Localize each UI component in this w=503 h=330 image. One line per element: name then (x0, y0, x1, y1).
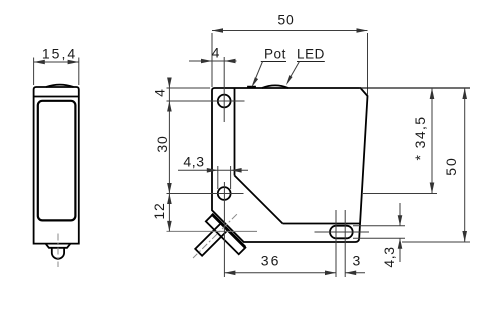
LED leader line (288, 62, 300, 83)
LED dome on top edge (262, 85, 288, 88)
dim 4 top arrow left (outside) (201, 59, 212, 64)
dim 34,5 dimension line (431, 88, 433, 194)
ext bottom edge to 50 right (402, 241, 470, 243)
sensor body outline (front view) (34, 87, 79, 244)
ext slot line 2 (344, 210, 346, 277)
dim 50 top arrow right (357, 28, 368, 33)
dim 15,4 arrow right (68, 60, 79, 65)
connector barrel (195, 224, 227, 256)
dim 36 dimension line (224, 272, 336, 274)
centerline of connector (front view) (57, 234, 59, 268)
dim 50 top: extension right (367, 33, 369, 95)
dim 4,3 arrow right (231, 168, 242, 173)
dim 36 arrow right (325, 271, 336, 276)
dim 3 arrow (outside right) (345, 271, 356, 276)
dim 4,3 arrow left (207, 168, 218, 173)
mounting strip inner vertical line (234, 88, 236, 176)
ext upper hole axis (167, 100, 245, 102)
connector face line (212, 214, 245, 247)
ext top edge (167, 87, 211, 89)
dim 34,5 arrow top (430, 88, 435, 99)
ext connector axis (167, 230, 258, 232)
bottom slot (330, 226, 353, 239)
svg-text:4: 4 (212, 45, 220, 61)
Pot leader underline (261, 61, 286, 63)
connector assembly rotated 45deg (180, 202, 257, 279)
svg-text:30: 30 (154, 135, 170, 152)
arrow at lower hole (up) (167, 194, 172, 205)
svg-text:12: 12 (151, 202, 167, 219)
dim 4,3 right lower tail (399, 238, 401, 262)
slot crosshair horizontal (315, 231, 370, 233)
svg-text:4: 4 (152, 89, 168, 97)
svg-text:3: 3 (353, 253, 361, 269)
connector centerline (193, 214, 237, 258)
Pot leader line (253, 62, 263, 85)
top dome (front view) (46, 85, 74, 87)
hole edge extension right (230, 166, 232, 189)
dim 4,3 right arrow down (398, 215, 403, 226)
connector barrel (front view) (52, 248, 64, 259)
svg-text:50: 50 (277, 12, 294, 28)
pot adjuster bump on top edge (248, 87, 255, 88)
svg-text:Pot: Pot (264, 47, 286, 62)
dim 36 arrow left (224, 271, 235, 276)
dim 4,3 dimension line (178, 169, 248, 171)
lower hole crosshair vertical / 36 extension (223, 182, 225, 277)
dim 4 top arrow right (outside) (225, 59, 236, 64)
dim 50 right dimension line (464, 88, 466, 242)
LED leader underline (297, 61, 325, 63)
svg-text:50: 50 (443, 156, 459, 176)
lens window panel (38, 101, 76, 221)
dim 15,4 extension line left (33, 58, 35, 86)
sensor body outline (side view) (212, 88, 368, 242)
arrow at upper hole (up) (167, 101, 172, 112)
svg-text:15,4: 15,4 (42, 46, 77, 62)
dim 50 right arrow top (462, 88, 467, 99)
dim 34,5 arrow bottom (430, 183, 435, 194)
arrow at connector axis (down) (167, 221, 172, 232)
dim 3 tail line (345, 272, 365, 274)
dim 50 top arrow left (212, 28, 223, 33)
svg-text:4,3: 4,3 (183, 154, 204, 170)
dim 50 top dimension line (212, 30, 368, 32)
dim 50 top: extension left (211, 33, 213, 87)
dim 15,4 arrow left (34, 60, 45, 65)
ext slot line 1 (335, 210, 337, 277)
left dimension line (168, 78, 170, 231)
ext lower hole axis to 34,5 (363, 193, 437, 195)
upper mounting hole (218, 95, 231, 108)
dim 4,3 right upper tail (399, 203, 401, 226)
cap separation line (34, 96, 79, 98)
dim 4,3 right arrow up (398, 238, 403, 249)
dim 15,4 dimension line (34, 61, 79, 63)
svg-text:* 34,5: * 34,5 (412, 116, 428, 161)
Pot leader arrow (251, 77, 258, 87)
LED leader arrow (286, 75, 293, 85)
svg-text:4,3: 4,3 (381, 246, 397, 267)
top edge extension to the right (359, 87, 470, 89)
lower mounting hole (218, 187, 231, 200)
svg-text:36: 36 (261, 253, 281, 269)
arrow at lower hole (down) (167, 183, 172, 194)
ext lower hole axis (167, 193, 244, 195)
slot bottom extension (353, 237, 405, 239)
dim 50 right arrow bottom (462, 231, 467, 242)
hole edge extension left (217, 166, 219, 189)
mounting strip inner diagonal (235, 176, 283, 224)
svg-text:LED: LED (297, 47, 325, 62)
connector flange (206, 215, 246, 255)
slot top extension (353, 225, 405, 227)
bottom strip top line (283, 223, 361, 225)
arrow at top edge (down) (167, 78, 172, 89)
dim 4 top: extension for hole axis (223, 57, 225, 122)
dim 15,4 extension line right (78, 58, 80, 86)
connector flange (front view) (46, 244, 71, 248)
dim 4 top dimension line (189, 60, 237, 62)
